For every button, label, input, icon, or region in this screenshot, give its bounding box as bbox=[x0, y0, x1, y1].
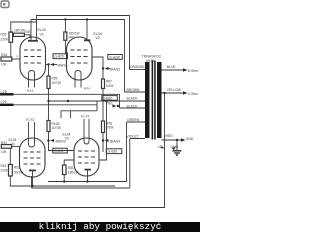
svg-text:5: 5 bbox=[17, 55, 19, 59]
wire GREEN tap bbox=[127, 122, 146, 182]
svg-text:BIAS2: BIAS2 bbox=[110, 67, 120, 71]
svg-text:V3: V3 bbox=[65, 137, 69, 141]
net label box mid right bbox=[102, 96, 118, 101]
tube V4 grids (dashed) bbox=[24, 152, 41, 164]
tube V1 grids (dashed) bbox=[24, 50, 41, 63]
node RED gnd junction bbox=[176, 139, 178, 141]
svg-text:RED: RED bbox=[166, 134, 174, 138]
svg-text:BLUE: BLUE bbox=[167, 65, 177, 69]
svg-text:H H: H H bbox=[84, 87, 90, 91]
svg-text:10K: 10K bbox=[1, 63, 8, 67]
ground bbox=[176, 140, 178, 150]
node BIAS2 bbox=[102, 67, 104, 69]
node V2 plate junction bbox=[86, 18, 88, 20]
svg-text:BROWN: BROWN bbox=[127, 88, 141, 92]
bottom bus C bbox=[32, 176, 130, 188]
label BIAS3 arrow bbox=[50, 139, 54, 142]
svg-text:BIAS4: BIAS4 bbox=[110, 139, 120, 143]
bias column mid continue bbox=[48, 101, 50, 121]
svg-text:BLACK: BLACK bbox=[127, 104, 139, 108]
icon top-left bbox=[1, 1, 9, 8]
tube V2 envelope bbox=[67, 37, 93, 80]
net label box bottom right bbox=[106, 149, 122, 154]
resistor R39 bbox=[13, 33, 24, 36]
label YEL arrow bbox=[117, 105, 119, 107]
svg-text:R39: R39 bbox=[25, 30, 31, 34]
svg-text:G-B30: G-B30 bbox=[108, 150, 117, 154]
tube V2 cathode and heater legs bbox=[75, 71, 81, 88]
wire R40 bottom to V2 grid bbox=[65, 40, 68, 53]
wire top bus2 (plate bus) bbox=[31, 20, 125, 93]
node rail2 bbox=[47, 100, 49, 102]
node bbox=[105, 100, 107, 102]
node bbox=[67, 100, 69, 102]
tube V4 heater legs and cathode bbox=[29, 122, 35, 147]
svg-text:10/7W: 10/7W bbox=[52, 126, 61, 130]
svg-text:EL34: EL34 bbox=[38, 28, 46, 32]
tube V1 plate bbox=[28, 40, 38, 42]
bottom bus A bbox=[48, 181, 127, 183]
svg-text:R35: R35 bbox=[1, 32, 7, 36]
svg-text:R52: R52 bbox=[14, 165, 20, 169]
wire R81 top bbox=[64, 160, 74, 165]
svg-text:R59: R59 bbox=[52, 77, 58, 81]
svg-text:ORANGE: ORANGE bbox=[130, 65, 145, 69]
svg-text:YEL: YEL bbox=[107, 102, 114, 106]
resistor R10B bbox=[47, 121, 50, 132]
svg-text:0/1W: 0/1W bbox=[106, 126, 113, 130]
wire R35 riser bbox=[11, 22, 37, 33]
tube V3 heater legs and cathode bbox=[84, 119, 89, 144]
wire BLACK2 tap bbox=[120, 107, 146, 109]
tube V2 grids (dashed) bbox=[71, 50, 88, 63]
svg-text:220K: 220K bbox=[1, 169, 9, 173]
wire VIOLET tap bbox=[130, 139, 145, 189]
svg-text:10/7W: 10/7W bbox=[52, 81, 61, 85]
svg-text:GREEN: GREEN bbox=[127, 118, 140, 122]
node BIAS1 bbox=[47, 63, 49, 65]
resistor R59 bbox=[47, 76, 50, 89]
label BIAS4 arrow bbox=[105, 139, 109, 142]
wire V3 screen right pin bbox=[99, 101, 107, 160]
resistor R35 bbox=[9, 32, 13, 42]
terminal 4 Ohm bbox=[183, 91, 188, 94]
svg-text:V1: V1 bbox=[40, 33, 44, 37]
svg-text:4 Ohm: 4 Ohm bbox=[188, 92, 198, 96]
net label box right G-A2W bbox=[108, 55, 123, 60]
label BIAS1 arrow bbox=[50, 63, 54, 66]
wire R3A to V1 grid bbox=[12, 58, 20, 60]
svg-text:180/1W: 180/1W bbox=[14, 29, 25, 33]
svg-text:BLACK: BLACK bbox=[127, 97, 139, 101]
node plate bus bbox=[31, 185, 33, 187]
rail4 stub bbox=[61, 101, 97, 118]
svg-text:GND: GND bbox=[186, 137, 194, 141]
tube V1 cathode and heater legs bbox=[29, 71, 35, 88]
svg-text:YELLOW: YELLOW bbox=[167, 88, 182, 92]
heater rail 2 / BLACK wire bbox=[49, 100, 146, 102]
resistor R31 bbox=[1, 145, 11, 149]
resistor R40 bbox=[64, 32, 67, 40]
watermark bar bbox=[0, 222, 200, 232]
node BIAS4 bbox=[102, 139, 104, 141]
tube V1 screen riser bbox=[36, 16, 38, 41]
wire R35 bottom to grid node bbox=[10, 42, 12, 57]
resistor R87 bbox=[102, 79, 105, 89]
tube V3 grids (dashed) bbox=[78, 151, 95, 163]
wire RED secondary bbox=[162, 139, 184, 141]
transformer left winding bar bbox=[145, 62, 150, 138]
node plate bus2 bbox=[86, 180, 88, 182]
net label box G-A20 bbox=[53, 54, 68, 59]
resistor R81 bbox=[63, 165, 67, 175]
svg-text:G-A2W: G-A2W bbox=[109, 55, 119, 59]
svg-text:220K: 220K bbox=[1, 37, 9, 41]
svg-text:H H: H H bbox=[27, 89, 33, 93]
svg-text:10K: 10K bbox=[1, 150, 8, 154]
wire R39 to tube bbox=[24, 35, 30, 38]
svg-text:C29: C29 bbox=[1, 100, 7, 104]
resistor R3A bbox=[1, 57, 12, 61]
svg-text:VIOLET: VIOLET bbox=[127, 135, 139, 139]
tube V3 envelope bbox=[74, 138, 99, 176]
label BIAS2 arrow bbox=[105, 67, 109, 70]
svg-text:V2: V2 bbox=[96, 36, 100, 40]
wire R40 top bbox=[64, 20, 66, 33]
transformer core lines bbox=[152, 61, 154, 140]
net label box bottom left bbox=[53, 148, 68, 153]
svg-text:0/1W: 0/1W bbox=[106, 84, 113, 88]
wire R45 bottom to bus bbox=[10, 176, 115, 186]
wire top bus1 (screen bus) bbox=[36, 16, 130, 70]
transformer right winding bar bbox=[157, 62, 162, 138]
node R40 top junction bbox=[64, 18, 66, 20]
tube V3 plate bbox=[85, 169, 92, 171]
wire BLUE secondary bbox=[162, 69, 186, 71]
svg-text:G-A30: G-A30 bbox=[54, 149, 63, 153]
resistor R45 bbox=[9, 165, 13, 177]
tube V2 plate bbox=[84, 39, 91, 41]
bias column left x=48.5 bbox=[48, 65, 50, 77]
wire V1 right pin to bias column bbox=[46, 64, 49, 66]
wire LS vertical and bottom frame bbox=[0, 93, 165, 208]
svg-text:G-A20: G-A20 bbox=[55, 55, 64, 59]
node 0-tap bbox=[163, 92, 165, 94]
terminal GND arrow bbox=[181, 138, 186, 141]
node R81 bottom bbox=[63, 180, 65, 182]
wire ORANGE tap bbox=[130, 69, 146, 71]
wire grid node down to R45 bbox=[9, 148, 11, 164]
svg-text:180/1W: 180/1W bbox=[68, 170, 79, 174]
tube V4 plate bbox=[29, 169, 36, 171]
terminal 8 Ohm bbox=[183, 68, 188, 71]
svg-text:R45: R45 bbox=[1, 164, 7, 168]
wire BROWN tap bbox=[125, 91, 146, 93]
svg-text:F1 F2: F1 F2 bbox=[26, 118, 35, 122]
wire V2 right pin to right bias column bbox=[92, 57, 103, 79]
svg-text:R31: R31 bbox=[1, 141, 7, 145]
svg-text:8 Ohm: 8 Ohm bbox=[188, 69, 198, 73]
tube V1 envelope bbox=[20, 37, 46, 80]
wire YELLOW secondary bbox=[162, 92, 186, 94]
tube V4 envelope bbox=[20, 138, 46, 177]
svg-text:G-B20: G-B20 bbox=[103, 96, 112, 100]
node BIAS3 bbox=[47, 139, 49, 141]
resistor R98 bbox=[102, 121, 105, 133]
svg-text:F1 F2: F1 F2 bbox=[81, 115, 90, 119]
wire R31 to V4 grid bbox=[12, 145, 20, 147]
svg-text:50/1W: 50/1W bbox=[14, 171, 23, 175]
svg-text:R3A: R3A bbox=[1, 53, 8, 57]
